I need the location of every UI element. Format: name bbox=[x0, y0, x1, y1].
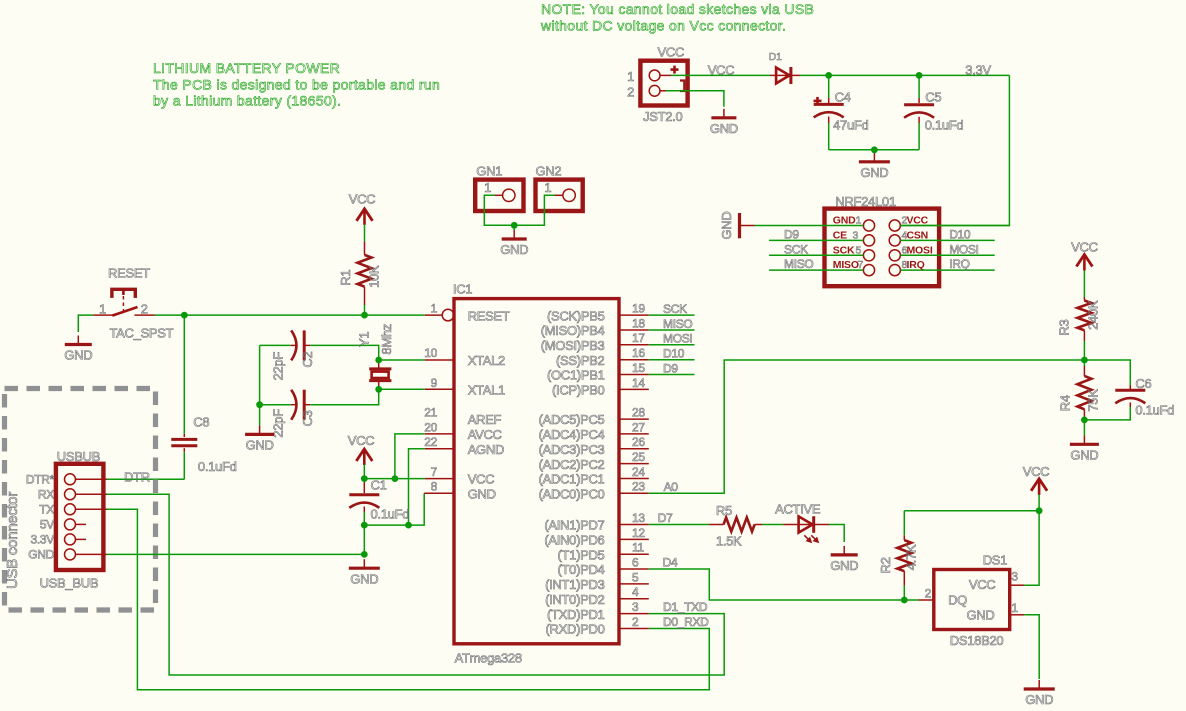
svg-text:12: 12 bbox=[632, 526, 645, 540]
svg-text:R3: R3 bbox=[1057, 320, 1072, 336]
ground GND (JST pin2) bbox=[710, 109, 738, 136]
svg-text:(ADC1)PC1: (ADC1)PC1 bbox=[539, 472, 605, 487]
wire/net IRQ (NRF) bbox=[900, 257, 994, 271]
connector JST2.0 (VCC) bbox=[627, 45, 688, 125]
svg-text:(AIN0)PD6: (AIN0)PD6 bbox=[544, 533, 604, 548]
resistor R5 1.5K bbox=[709, 503, 762, 548]
svg-text:C2: C2 bbox=[300, 352, 315, 368]
ground GND (GN1/GN2) bbox=[500, 225, 528, 257]
junction C4 top bbox=[825, 72, 832, 79]
svg-text:VCC: VCC bbox=[708, 63, 735, 78]
svg-text:D4: D4 bbox=[663, 556, 678, 570]
svg-text:DTR: DTR bbox=[124, 469, 150, 484]
wire GN1 to GND bbox=[484, 195, 514, 225]
svg-text:GND: GND bbox=[1025, 692, 1053, 707]
svg-text:DTR*: DTR* bbox=[26, 473, 55, 487]
svg-text:75K: 75K bbox=[1086, 389, 1101, 412]
svg-text:RESET: RESET bbox=[108, 266, 150, 281]
svg-text:11: 11 bbox=[632, 541, 644, 555]
svg-text:R5: R5 bbox=[716, 503, 732, 518]
svg-text:D10: D10 bbox=[949, 227, 971, 241]
svg-text:3: 3 bbox=[853, 229, 859, 241]
svg-text:GN2: GN2 bbox=[536, 164, 562, 179]
svg-text:1: 1 bbox=[1011, 601, 1018, 615]
svg-text:(INT1)PD3: (INT1)PD3 bbox=[545, 577, 604, 592]
net stubs SCK MISO MOSI D10 D9 bbox=[649, 302, 695, 316]
svg-text:(OC1)PB1: (OC1)PB1 bbox=[547, 368, 605, 383]
svg-text:2: 2 bbox=[925, 587, 932, 601]
wire/net D4 bbox=[649, 556, 919, 600]
svg-text:MISO: MISO bbox=[663, 317, 692, 331]
svg-text:2: 2 bbox=[632, 615, 639, 629]
svg-text:1: 1 bbox=[627, 69, 634, 84]
IC DS1 DS18B20 bbox=[919, 552, 1025, 647]
svg-text:18: 18 bbox=[632, 316, 645, 330]
junction GN1/GN2 bbox=[511, 222, 518, 229]
IC1 pin 1 RESET bubble bbox=[442, 309, 454, 321]
svg-text:240K: 240K bbox=[1086, 300, 1101, 330]
svg-text:27: 27 bbox=[632, 420, 645, 434]
ground GND (R4) bbox=[1070, 420, 1099, 463]
wire C4/C5 bottom rail bbox=[829, 149, 919, 151]
ground GND (C2/C3) bbox=[245, 405, 274, 453]
svg-text:TX: TX bbox=[39, 503, 54, 517]
svg-text:1: 1 bbox=[544, 180, 551, 195]
svg-text:R1: R1 bbox=[338, 270, 353, 286]
svg-text:21: 21 bbox=[424, 405, 437, 419]
svg-text:GND: GND bbox=[28, 548, 54, 562]
wire AVCC pin20 bbox=[395, 434, 454, 479]
resistor R3 240K bbox=[1057, 271, 1101, 361]
wire/net D0_RXD label bbox=[663, 615, 709, 629]
svg-text:2: 2 bbox=[141, 301, 148, 316]
svg-text:NOTE: You cannot load sketches: NOTE: You cannot load sketches via USB bbox=[541, 1, 814, 17]
svg-text:AGND: AGND bbox=[468, 442, 504, 457]
svg-text:(SCK)PB5: (SCK)PB5 bbox=[547, 308, 605, 323]
svg-text:(ADC5)PC5: (ADC5)PC5 bbox=[539, 412, 605, 427]
ground GND (DS18B20) bbox=[1024, 680, 1055, 707]
svg-text:16: 16 bbox=[632, 346, 645, 360]
wire/net MOSI (NRF) bbox=[900, 242, 994, 256]
wire JST pin2 to GND bbox=[660, 91, 724, 107]
svg-text:VCC: VCC bbox=[969, 577, 996, 592]
wire/net D1_TXD label bbox=[663, 600, 708, 614]
svg-text:SCK: SCK bbox=[784, 242, 808, 256]
svg-text:14: 14 bbox=[632, 376, 645, 390]
svg-text:AVCC: AVCC bbox=[468, 427, 502, 442]
svg-text:D9: D9 bbox=[663, 361, 678, 375]
svg-text:Y1: Y1 bbox=[356, 332, 371, 347]
svg-text:(ADC0)PC0: (ADC0)PC0 bbox=[539, 487, 605, 502]
svg-text:D0_RXD: D0_RXD bbox=[663, 615, 709, 629]
wire AGND pin22 bbox=[409, 449, 455, 525]
wire/net A0 bbox=[649, 360, 1085, 494]
svg-text:7: 7 bbox=[858, 259, 864, 271]
svg-text:24: 24 bbox=[632, 465, 645, 479]
svg-text:A0: A0 bbox=[664, 480, 679, 494]
wire NRF GND pin1 bbox=[755, 225, 864, 227]
svg-text:MISO: MISO bbox=[833, 259, 859, 271]
svg-text:26: 26 bbox=[632, 435, 645, 449]
wire XTAL2 pin10 bbox=[379, 359, 454, 361]
svg-text:5V: 5V bbox=[40, 518, 54, 532]
svg-text:GND: GND bbox=[468, 487, 496, 502]
svg-text:13: 13 bbox=[632, 511, 645, 525]
svg-text:C1: C1 bbox=[371, 478, 387, 493]
svg-text:6: 6 bbox=[632, 555, 639, 569]
svg-text:GND: GND bbox=[967, 607, 995, 622]
junction AVCC bbox=[392, 475, 399, 482]
svg-text:1: 1 bbox=[484, 180, 491, 195]
svg-text:3.3V: 3.3V bbox=[31, 533, 55, 547]
junction VCC/R2 bbox=[1036, 507, 1043, 514]
svg-text:(INT0)PD2: (INT0)PD2 bbox=[545, 592, 604, 607]
svg-text:GN1: GN1 bbox=[476, 164, 502, 179]
svg-text:GND: GND bbox=[719, 212, 734, 240]
junction AGND bbox=[405, 522, 412, 529]
wire DS pin1 to GND bbox=[1024, 615, 1039, 679]
wire C2-C3 left + ground bbox=[259, 345, 261, 404]
wire VCC rail to pin7 bbox=[364, 465, 454, 479]
svg-text:22pF: 22pF bbox=[271, 352, 286, 381]
svg-text:RESET: RESET bbox=[468, 308, 510, 323]
capacitor C1 0.1uFd bbox=[349, 478, 409, 555]
svg-text:3: 3 bbox=[1011, 570, 1018, 584]
wire/net MISO (NRF) bbox=[769, 257, 863, 271]
junction C4/C5 bottom bbox=[871, 146, 878, 153]
svg-text:17: 17 bbox=[632, 331, 645, 345]
svg-text:RX: RX bbox=[38, 488, 54, 502]
wire RX to D1_TXD bbox=[107, 494, 724, 675]
ground GND (C4/C5) bbox=[859, 153, 890, 180]
svg-text:IRQ: IRQ bbox=[907, 259, 925, 271]
connector GN2 bbox=[536, 164, 583, 212]
LED ACTIVE bbox=[762, 502, 829, 544]
supply VCC (C1/AVCC) bbox=[348, 433, 375, 465]
svg-text:C8: C8 bbox=[193, 415, 209, 430]
wire/net D9 (NRF CE) bbox=[769, 227, 863, 241]
svg-text:JST2.0: JST2.0 bbox=[643, 109, 682, 124]
wire/net SCK (NRF) bbox=[769, 242, 863, 256]
wire JST pin1 to diode (VCC net) bbox=[660, 63, 770, 78]
junction C5 top bbox=[916, 72, 923, 79]
switch S1 TAC_SPST (RESET) bbox=[93, 266, 173, 341]
svg-text:MISO: MISO bbox=[784, 257, 813, 271]
svg-text:D1_TXD: D1_TXD bbox=[663, 600, 708, 614]
svg-text:(MISO)PB4: (MISO)PB4 bbox=[541, 323, 605, 338]
capacitor C3 22pF bbox=[260, 389, 379, 437]
svg-text:19: 19 bbox=[632, 302, 645, 316]
svg-text:2: 2 bbox=[627, 85, 634, 100]
svg-text:(ADC4)PC4: (ADC4)PC4 bbox=[539, 427, 605, 442]
junction C3 left bbox=[256, 401, 263, 408]
svg-text:CE: CE bbox=[833, 229, 847, 241]
svg-text:SCK: SCK bbox=[833, 244, 855, 256]
crystal Y1 8Mhz bbox=[356, 324, 393, 389]
svg-text:0.1uFd: 0.1uFd bbox=[198, 459, 237, 474]
svg-text:25: 25 bbox=[632, 450, 645, 464]
svg-text:1.5K: 1.5K bbox=[716, 533, 742, 548]
svg-text:D10: D10 bbox=[663, 347, 685, 361]
junction Y1 top bbox=[375, 357, 382, 364]
svg-text:0.1uFd: 0.1uFd bbox=[1135, 402, 1174, 417]
svg-text:D7: D7 bbox=[658, 511, 673, 525]
svg-text:TAC_SPST: TAC_SPST bbox=[110, 326, 174, 341]
svg-text:AREF: AREF bbox=[468, 412, 502, 427]
svg-text:MOSI: MOSI bbox=[949, 242, 978, 256]
svg-text:4.7K: 4.7K bbox=[904, 544, 919, 570]
svg-text:(ICP)PB0: (ICP)PB0 bbox=[552, 383, 605, 398]
svg-text:VCC: VCC bbox=[348, 433, 375, 448]
svg-text:DQ: DQ bbox=[948, 592, 967, 607]
svg-text:1: 1 bbox=[99, 301, 106, 316]
wire VCC to R2 and DS pin3 bbox=[904, 495, 1039, 586]
svg-text:LITHIUM BATTERY POWER: LITHIUM BATTERY POWER bbox=[153, 60, 340, 76]
svg-text:23: 23 bbox=[632, 480, 645, 494]
svg-text:8: 8 bbox=[431, 480, 438, 494]
svg-text:VCC: VCC bbox=[349, 191, 376, 206]
svg-text:NRF24L01: NRF24L01 bbox=[835, 194, 896, 209]
IC U1 ATmega328 box bbox=[453, 282, 619, 666]
connector GN1 bbox=[475, 164, 523, 212]
note text lithium bbox=[153, 60, 440, 109]
svg-text:GND: GND bbox=[860, 165, 888, 180]
wire/net D7 label bbox=[649, 511, 709, 525]
svg-text:GND: GND bbox=[1070, 448, 1098, 463]
supply VCC (R1) bbox=[349, 191, 376, 225]
svg-text:(ADC3)PC3: (ADC3)PC3 bbox=[539, 442, 605, 457]
svg-text:SCK: SCK bbox=[663, 302, 687, 316]
junction RESET/R1 bbox=[361, 312, 368, 319]
wire TX to D0_RXD bbox=[107, 509, 709, 690]
wire RESET net bbox=[155, 314, 443, 316]
svg-text:(T0)PD4: (T0)PD4 bbox=[557, 562, 604, 577]
svg-text:VCC: VCC bbox=[1023, 464, 1050, 479]
junction R2/D4 bbox=[901, 597, 908, 604]
svg-text:C5: C5 bbox=[925, 89, 941, 104]
svg-text:1: 1 bbox=[856, 215, 862, 227]
svg-text:GND: GND bbox=[64, 348, 92, 363]
svg-text:(RXD)PD0: (RXD)PD0 bbox=[546, 622, 605, 637]
svg-text:28: 28 bbox=[632, 405, 645, 419]
svg-text:XTAL2: XTAL2 bbox=[468, 353, 505, 368]
IC1 right pin stubs and numbers bbox=[619, 302, 649, 629]
svg-text:C3: C3 bbox=[300, 410, 315, 426]
wire/net D10 (NRF CSN) bbox=[900, 227, 994, 241]
svg-text:C6: C6 bbox=[1135, 376, 1151, 391]
svg-text:without DC voltage on Vcc conn: without DC voltage on Vcc connector. bbox=[540, 18, 786, 34]
wire USB GND to C1 GND rail bbox=[107, 553, 364, 555]
svg-text:VCC: VCC bbox=[907, 215, 929, 227]
svg-text:The PCB is designed to be port: The PCB is designed to be portable and r… bbox=[153, 76, 440, 92]
connector NRF24L01 bbox=[825, 194, 940, 286]
svg-text:(MOSI)PB3: (MOSI)PB3 bbox=[541, 338, 605, 353]
svg-text:D9: D9 bbox=[784, 227, 799, 241]
svg-text:MOSI: MOSI bbox=[663, 332, 692, 346]
svg-text:7: 7 bbox=[431, 465, 438, 479]
svg-text:8Mhz: 8Mhz bbox=[379, 324, 394, 355]
IC1 left pin numbers and labels bbox=[424, 302, 510, 502]
svg-text:20: 20 bbox=[424, 420, 437, 434]
svg-text:(SS)PB2: (SS)PB2 bbox=[556, 353, 605, 368]
svg-text:IRQ: IRQ bbox=[949, 257, 969, 271]
junction R3/R4/A0 bbox=[1081, 357, 1088, 364]
svg-text:USBUB: USBUB bbox=[57, 449, 100, 464]
svg-text:ATmega328: ATmega328 bbox=[455, 650, 522, 665]
svg-text:VCC: VCC bbox=[468, 472, 495, 487]
svg-text:(TXD)PD1: (TXD)PD1 bbox=[547, 607, 605, 622]
junction C1 bottom bbox=[361, 522, 368, 529]
wire GND pin8 bbox=[364, 493, 454, 525]
svg-text:D1: D1 bbox=[769, 51, 782, 63]
wire 3.3V net top bbox=[800, 63, 1009, 226]
diode D1 bbox=[769, 51, 800, 84]
resistor R2 4.7K bbox=[878, 511, 919, 600]
svg-text:DS1: DS1 bbox=[983, 552, 1007, 567]
ground GND (switch) bbox=[64, 336, 92, 363]
svg-text:10K: 10K bbox=[366, 265, 381, 288]
junction C1 top bbox=[361, 475, 368, 482]
svg-text:IC1: IC1 bbox=[453, 282, 472, 297]
junction GND rail bbox=[361, 551, 368, 558]
svg-text:(T1)PD5: (T1)PD5 bbox=[557, 547, 604, 562]
svg-text:GND: GND bbox=[710, 121, 738, 136]
svg-text:5: 5 bbox=[632, 570, 639, 584]
wire/net DTR bbox=[107, 469, 184, 484]
capacitor C2 22pF bbox=[260, 330, 379, 380]
svg-text:MOSI: MOSI bbox=[907, 244, 933, 256]
svg-text:by a Lithium battery (18650).: by a Lithium battery (18650). bbox=[153, 93, 341, 109]
svg-text:4: 4 bbox=[632, 585, 639, 599]
junction R4/C6 bottom bbox=[1081, 417, 1088, 424]
svg-text:VCC: VCC bbox=[658, 45, 685, 60]
svg-text:3.3V: 3.3V bbox=[965, 63, 991, 78]
capacitor C6 0.1uFd bbox=[1084, 360, 1174, 420]
junction RESET/C8 bbox=[181, 312, 188, 319]
svg-text:0.1uFd: 0.1uFd bbox=[371, 506, 410, 521]
supply VCC (DS18B20) bbox=[1023, 464, 1050, 495]
capacitor C4 bbox=[814, 75, 869, 149]
svg-text:USB connector: USB connector bbox=[4, 492, 21, 589]
svg-text:0.1uFd: 0.1uFd bbox=[925, 118, 964, 133]
svg-text:GND: GND bbox=[246, 438, 274, 453]
svg-text:(ADC2)PC2: (ADC2)PC2 bbox=[539, 457, 605, 472]
svg-text:R4: R4 bbox=[1058, 395, 1073, 411]
svg-text:XTAL1: XTAL1 bbox=[468, 383, 505, 398]
svg-text:10: 10 bbox=[424, 346, 437, 360]
svg-text:GND: GND bbox=[833, 215, 856, 227]
IC1 right inner labels (port B/C) bbox=[539, 308, 605, 636]
svg-text:47uFd: 47uFd bbox=[833, 118, 868, 133]
resistor R4 75K bbox=[1058, 360, 1101, 420]
svg-text:(AIN1)PD7: (AIN1)PD7 bbox=[544, 518, 604, 533]
svg-text:GND: GND bbox=[350, 571, 378, 586]
svg-text:9: 9 bbox=[431, 376, 438, 390]
ground GND (LED) bbox=[830, 546, 858, 573]
svg-text:ACTIVE: ACTIVE bbox=[775, 502, 821, 517]
wire switch pin1 to GND bbox=[78, 315, 93, 332]
svg-text:GND: GND bbox=[500, 242, 528, 257]
svg-text:22: 22 bbox=[424, 435, 437, 449]
svg-text:15: 15 bbox=[632, 361, 645, 375]
svg-text:1: 1 bbox=[431, 302, 438, 316]
ground GND (NRF, rotated) bbox=[719, 212, 755, 240]
svg-text:R2: R2 bbox=[878, 557, 893, 573]
wire LED to GND bbox=[829, 525, 844, 543]
svg-text:3: 3 bbox=[632, 600, 639, 614]
svg-text:DS18B20: DS18B20 bbox=[950, 633, 1004, 648]
wire XTAL1 pin9 bbox=[379, 388, 454, 390]
capacitor C8 0.1uFd bbox=[171, 315, 236, 479]
resistor R1 10K bbox=[338, 225, 381, 315]
svg-text:5: 5 bbox=[856, 244, 862, 256]
svg-text:GND: GND bbox=[830, 558, 858, 573]
capacitor C5 bbox=[904, 75, 963, 149]
junction Y1 bottom bbox=[375, 386, 382, 393]
supply VCC (R3) bbox=[1071, 239, 1098, 270]
ground GND (C1) bbox=[349, 559, 380, 586]
wire NRF VCC pin2 to 3.3V bbox=[900, 225, 1009, 227]
svg-text:CSN: CSN bbox=[907, 229, 929, 241]
svg-text:C4: C4 bbox=[835, 89, 851, 104]
connector USB_BUB bbox=[26, 449, 107, 590]
wire GN2 to GND bbox=[514, 195, 563, 225]
note text top bbox=[540, 1, 814, 34]
dashed box USB connector bbox=[4, 389, 156, 611]
svg-text:USB_BUB: USB_BUB bbox=[40, 575, 99, 590]
